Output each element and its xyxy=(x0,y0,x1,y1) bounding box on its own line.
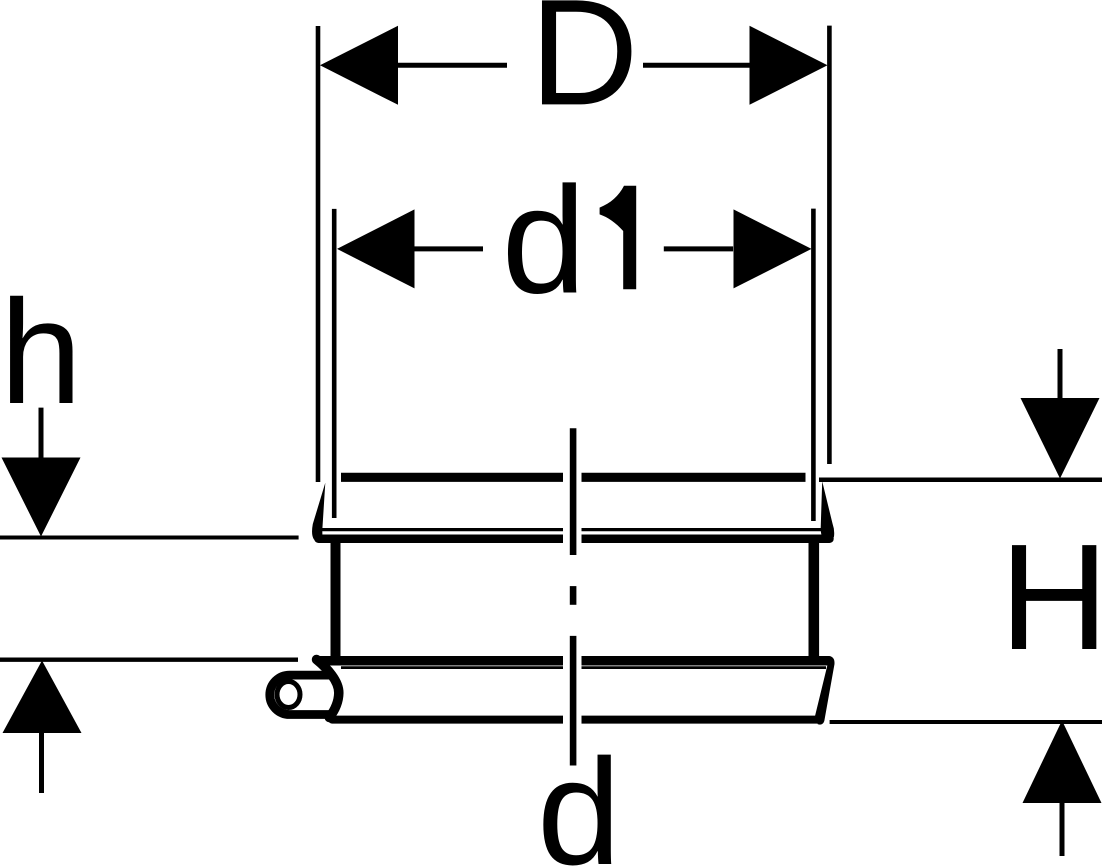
extension line d1 right xyxy=(811,209,816,521)
fitting flange right slant edge xyxy=(821,481,835,542)
svg-text:H: H xyxy=(1000,512,1102,681)
fitting flange bottom edge xyxy=(319,535,830,544)
fitting flange left slant edge xyxy=(312,483,325,542)
dimension line d1 right tail xyxy=(664,246,733,251)
fitting flange thin highlight line xyxy=(322,528,827,531)
arrowhead top right down xyxy=(1021,398,1100,479)
reference line h left xyxy=(0,536,299,540)
arrowhead bottom right up xyxy=(1023,721,1102,804)
arrow top right stem xyxy=(1058,349,1063,404)
label d1 digit 1 xyxy=(600,186,637,289)
arrowhead h down xyxy=(2,458,81,537)
fitting band bottom edge xyxy=(332,716,818,724)
extension line D right xyxy=(827,26,832,464)
weld terminal nub outline xyxy=(270,675,334,714)
weld terminal end cap ellipse xyxy=(277,682,300,708)
dimension line d1 left tail xyxy=(414,246,483,251)
fitting body left wall xyxy=(331,543,341,660)
arrowhead bottom left up xyxy=(3,661,82,734)
reference line bottom right xyxy=(830,720,1102,724)
fitting band thin highlight line xyxy=(341,666,826,669)
dimension line D right tail xyxy=(643,63,751,68)
fitting band top edge xyxy=(319,656,830,666)
arrow bottom left stem xyxy=(39,727,44,793)
svg-text:D: D xyxy=(530,0,639,136)
arrowhead D left xyxy=(320,26,398,105)
dimension line D left tail xyxy=(398,63,507,68)
reference line top right xyxy=(819,477,1102,482)
centerline segment short middle xyxy=(570,586,577,605)
centerline white halo xyxy=(563,428,582,766)
extension line D left xyxy=(316,26,321,482)
extension line d1 left xyxy=(332,209,337,518)
fitting body right wall xyxy=(808,543,819,660)
fitting flange top shoulder line xyxy=(341,473,806,482)
arrowhead d1 right xyxy=(734,209,812,288)
centerline segment long top xyxy=(570,428,577,555)
fitting band right slant edge xyxy=(815,656,835,725)
weld terminal nub xyxy=(270,675,334,714)
svg-text:d: d xyxy=(502,156,587,326)
fitting band left curved edge xyxy=(317,660,339,718)
arrowhead d1 left xyxy=(337,209,415,288)
reference line bottom left xyxy=(0,658,298,662)
arrow bottom right stem xyxy=(1060,797,1065,856)
centerline segment long bottom xyxy=(570,636,577,766)
arrowhead D right xyxy=(750,26,828,105)
arrow h stem xyxy=(39,408,44,465)
